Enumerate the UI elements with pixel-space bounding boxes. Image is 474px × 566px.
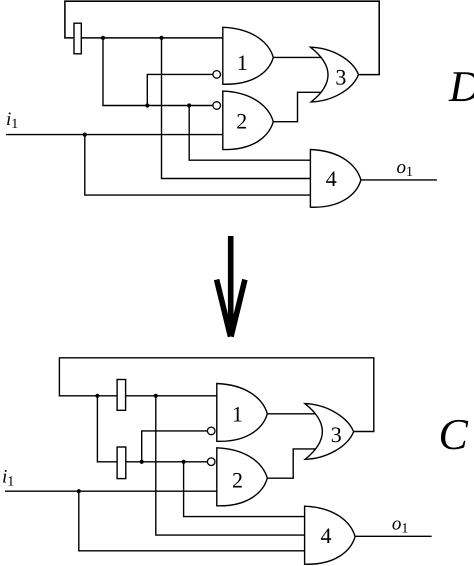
wire to and4 middle input (bottom circuit) bbox=[156, 396, 305, 535]
svg-text:o1: o1 bbox=[392, 514, 409, 537]
junction dots (bottom circuit) bbox=[77, 394, 186, 494]
big arrow between circuits bbox=[217, 236, 245, 337]
svg-text:3: 3 bbox=[335, 65, 346, 90]
wire to gate1 bubble (bottom circuit) bbox=[142, 431, 208, 462]
svg-text:i1: i1 bbox=[6, 109, 18, 132]
or-gate 3 (bottom circuit) bbox=[305, 404, 354, 460]
wire input i1 (top circuit) bbox=[6, 134, 223, 136]
and-gate 2 (top circuit) bbox=[223, 91, 273, 149]
wire to gate1 bubble (top circuit) bbox=[147, 74, 213, 105]
delay element rectangle 2 (bottom circuit) bbox=[117, 447, 126, 479]
wire to and4 bottom input (bottom circuit) bbox=[79, 491, 305, 551]
wire feedback frame top circuit bbox=[65, 1, 379, 74]
wire to and4 middle input (top circuit) bbox=[162, 38, 311, 179]
and-gate 1 (bottom circuit) bbox=[217, 384, 267, 442]
junction dots (top circuit) bbox=[83, 36, 192, 137]
wire to and4 top input (top circuit) bbox=[189, 106, 310, 161]
delay element rectangle (top circuit) bbox=[74, 23, 81, 54]
svg-text:1: 1 bbox=[232, 402, 243, 427]
and-gate 4 (bottom circuit) bbox=[305, 506, 356, 564]
wire to and4 bottom input (top circuit) bbox=[85, 135, 311, 196]
wire feedback frame bottom circuit bbox=[59, 358, 373, 432]
svg-text:2: 2 bbox=[236, 109, 247, 134]
svg-text:C: C bbox=[439, 410, 469, 459]
svg-text:1: 1 bbox=[237, 50, 248, 75]
svg-text:D: D bbox=[448, 62, 474, 111]
svg-text:2: 2 bbox=[232, 468, 243, 493]
wire input i1 (bottom circuit) bbox=[5, 490, 217, 492]
wire to and4 top input (bottom circuit) bbox=[184, 462, 305, 517]
svg-text:4: 4 bbox=[321, 523, 332, 548]
wire gate1 output to or3 (top circuit) bbox=[273, 56, 322, 58]
inverter bubble gate1 (top circuit) bbox=[213, 71, 221, 79]
wire and4 output o1 (bottom circuit) bbox=[355, 535, 432, 537]
inverter bubble gate2 (bottom circuit) bbox=[207, 458, 215, 466]
wire to gate2 bubble (top circuit) bbox=[103, 38, 213, 106]
svg-text:4: 4 bbox=[326, 166, 337, 191]
and-gate 1 (top circuit) bbox=[223, 27, 273, 84]
wire to gate2 bubble (bottom circuit) bbox=[97, 396, 207, 462]
inverter bubble gate1 (bottom circuit) bbox=[207, 427, 215, 435]
svg-text:o1: o1 bbox=[397, 157, 414, 180]
wire gate2 output to or3 (bottom circuit) bbox=[267, 449, 317, 478]
and-gate 4 (top circuit) bbox=[310, 150, 361, 208]
svg-text:3: 3 bbox=[331, 422, 342, 447]
delay element rectangle 1 (bottom circuit) bbox=[117, 380, 126, 411]
or-gate 3 (top circuit) bbox=[311, 47, 359, 102]
wire and4 output o1 (top circuit) bbox=[361, 179, 437, 181]
svg-text:i1: i1 bbox=[2, 467, 14, 490]
inverter bubble gate2 (top circuit) bbox=[213, 102, 221, 110]
and-gate 2 (bottom circuit) bbox=[217, 448, 267, 506]
wire gate2 output to or3 (top circuit) bbox=[273, 92, 322, 121]
wire gate1 output to or3 (bottom circuit) bbox=[267, 413, 316, 415]
